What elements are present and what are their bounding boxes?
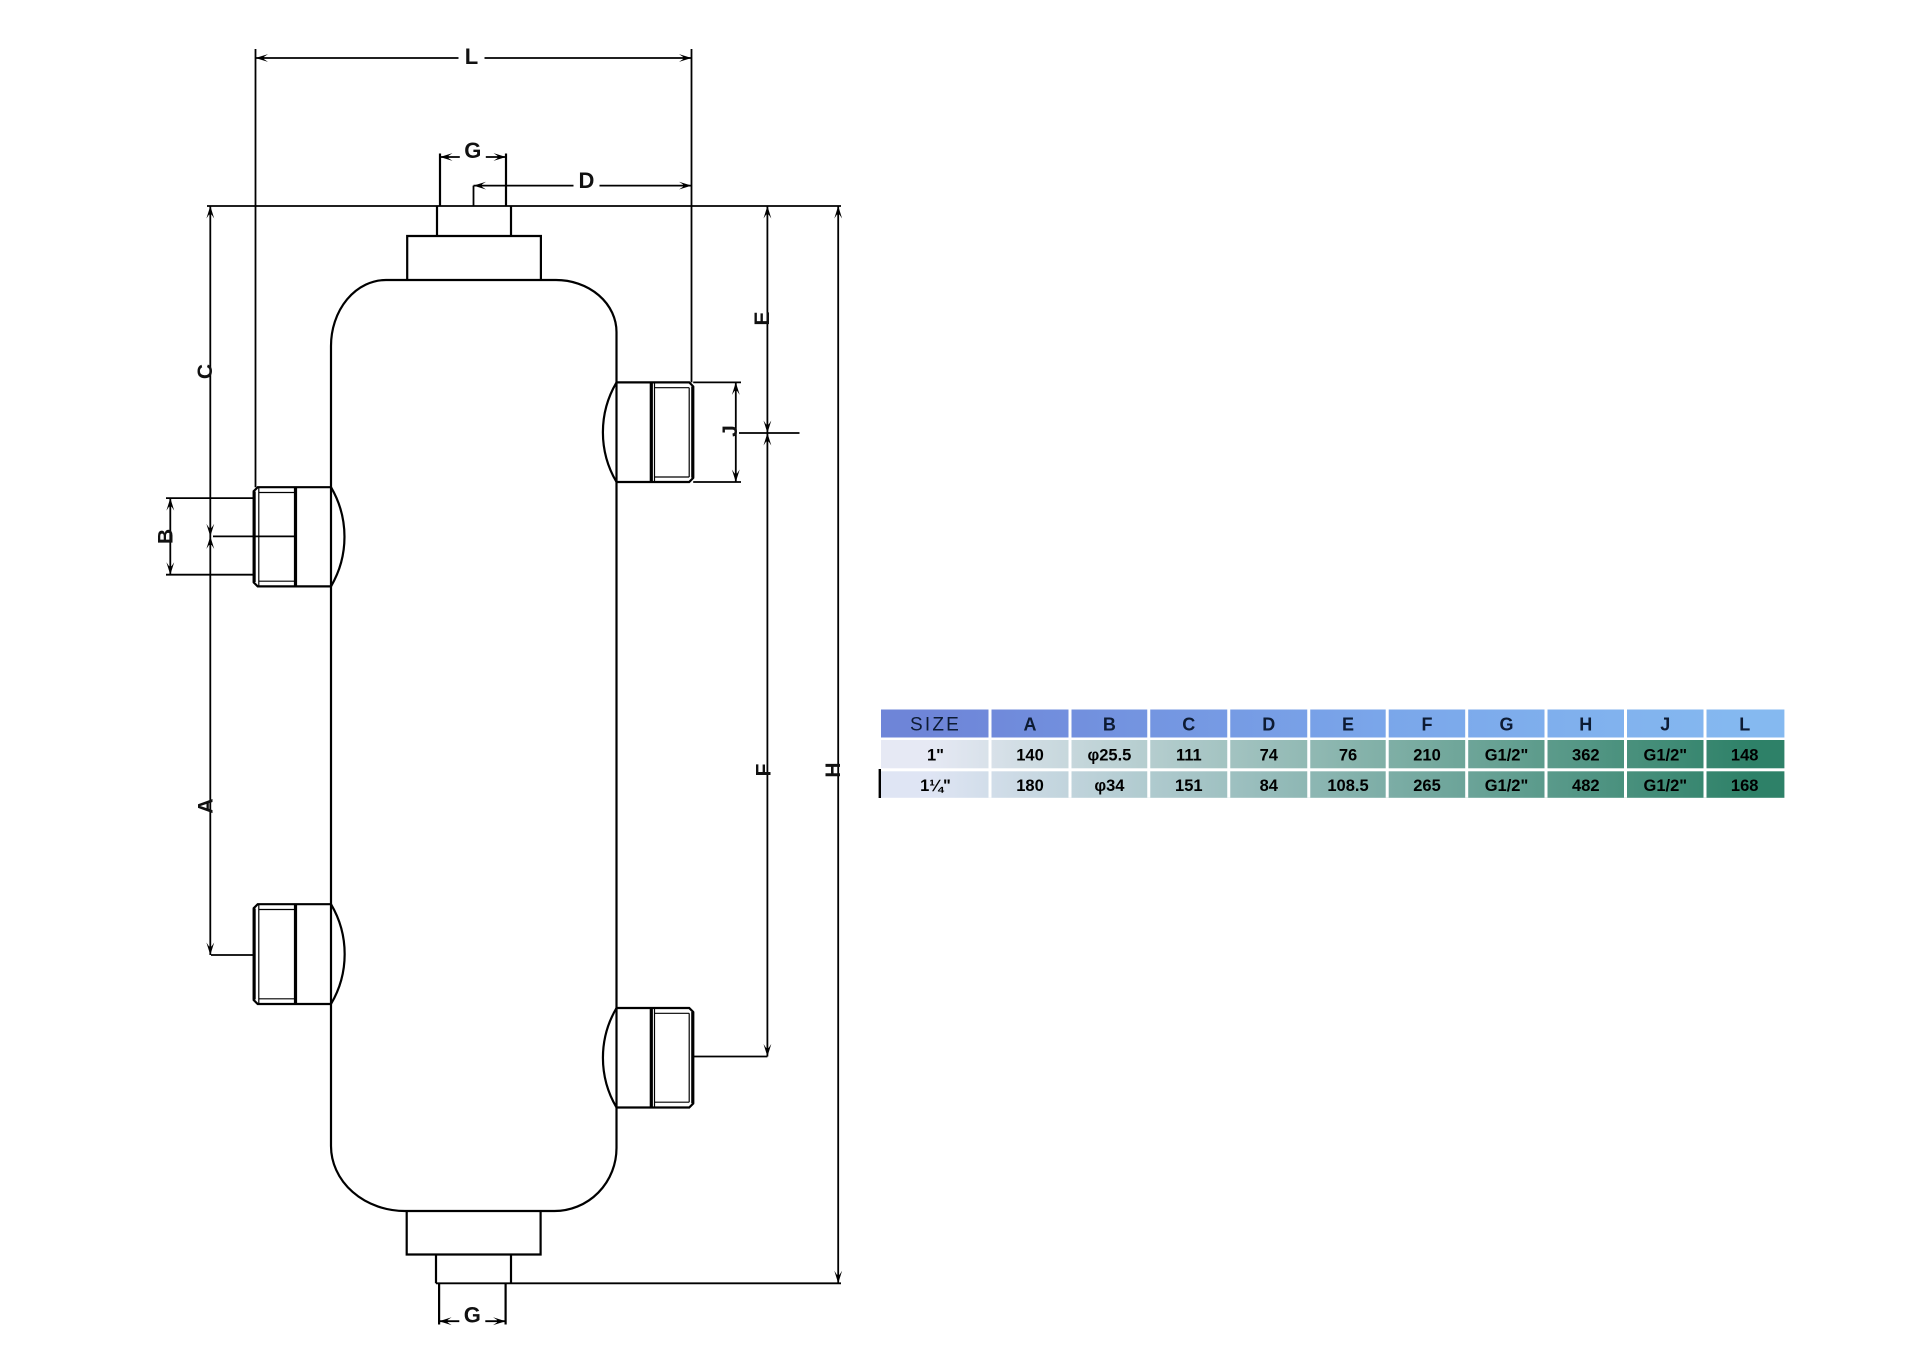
- svg-text:J: J: [1660, 715, 1670, 735]
- svg-text:151: 151: [1175, 777, 1203, 795]
- svg-text:E: E: [1342, 715, 1354, 735]
- svg-text:D: D: [579, 168, 595, 193]
- svg-text:B: B: [155, 529, 178, 544]
- svg-text:140: 140: [1016, 747, 1044, 765]
- svg-text:210: 210: [1413, 747, 1441, 765]
- svg-text:φ34: φ34: [1094, 777, 1125, 795]
- svg-text:76: 76: [1339, 747, 1357, 765]
- svg-text:H: H: [1579, 715, 1592, 735]
- svg-text:1": 1": [927, 747, 944, 765]
- svg-text:111: 111: [1176, 747, 1202, 765]
- svg-text:148: 148: [1731, 747, 1759, 765]
- svg-text:G: G: [464, 138, 481, 163]
- svg-text:G: G: [1499, 715, 1513, 735]
- svg-text:A: A: [1024, 715, 1037, 735]
- svg-text:D: D: [1262, 715, 1275, 735]
- svg-text:G1/2": G1/2": [1643, 747, 1687, 765]
- svg-text:108.5: 108.5: [1327, 777, 1368, 795]
- svg-text:J: J: [719, 425, 742, 437]
- svg-text:F: F: [1422, 715, 1433, 735]
- svg-text:A: A: [195, 798, 218, 813]
- svg-text:482: 482: [1572, 777, 1600, 795]
- svg-text:G1/2": G1/2": [1643, 777, 1687, 795]
- svg-text:84: 84: [1260, 777, 1279, 795]
- svg-text:G1/2": G1/2": [1485, 747, 1529, 765]
- svg-text:1¼": 1¼": [920, 777, 951, 795]
- svg-text:168: 168: [1731, 777, 1759, 795]
- svg-text:74: 74: [1260, 747, 1279, 765]
- svg-text:G1/2": G1/2": [1485, 777, 1529, 795]
- svg-text:L: L: [465, 44, 478, 69]
- svg-text:C: C: [194, 364, 217, 379]
- svg-text:H: H: [822, 762, 845, 777]
- svg-text:362: 362: [1572, 747, 1600, 765]
- svg-text:C: C: [1182, 715, 1195, 735]
- svg-text:E: E: [751, 311, 774, 325]
- svg-text:L: L: [1739, 715, 1750, 735]
- svg-text:φ25.5: φ25.5: [1087, 747, 1131, 765]
- svg-text:SIZE: SIZE: [910, 715, 961, 736]
- svg-text:F: F: [753, 763, 776, 776]
- svg-text:180: 180: [1016, 777, 1044, 795]
- svg-text:G: G: [464, 1303, 481, 1328]
- svg-text:B: B: [1103, 715, 1116, 735]
- svg-text:265: 265: [1413, 777, 1441, 795]
